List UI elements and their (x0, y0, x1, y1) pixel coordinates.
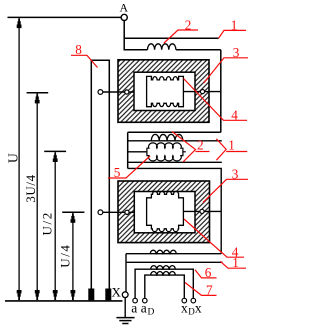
node A terminal circle (121, 14, 127, 20)
terminal circle T2 left outer (98, 210, 103, 215)
arrow down 3U/4 (35, 290, 40, 293)
terminal circle xD (182, 298, 187, 303)
wire top horizontal to A (8, 16, 122, 18)
inductor L2 top coil lead right (176, 49, 221, 51)
ground symbol (116, 318, 134, 324)
svg-text:1: 1 (231, 18, 238, 33)
inductor rowC coil bumps (151, 266, 176, 270)
thick bar shunt leg 1 (88, 289, 94, 301)
leader 3 upper (204, 58, 248, 83)
transformer core T2 window (134, 192, 195, 233)
wire row1 with coil (128, 140, 222, 142)
svg-text:2: 2 (185, 18, 192, 33)
red annotations (71, 30, 248, 295)
svg-text:7: 7 (206, 283, 213, 298)
transformer core T2 outer (118, 181, 210, 243)
transformer core T1 outer (118, 60, 209, 123)
thick bar shunt leg 2 (105, 289, 111, 301)
svg-text:a: a (131, 301, 137, 316)
wire rowC outer U (135, 269, 193, 298)
winding W5 fat coil body (147, 143, 186, 161)
inductor rowD coil bumps (151, 272, 176, 276)
arrow down U/2 (53, 290, 58, 293)
dimension arrows (17, 19, 76, 300)
wire left lower vertical to X (125, 254, 127, 292)
svg-text:8: 8 (75, 42, 82, 57)
svg-text:6: 6 (205, 265, 212, 280)
arrow up 3U/4 (36, 94, 38, 96)
terminal circle X (122, 292, 128, 298)
wire ladder left vertical (127, 132, 129, 168)
wire T1 left tap (103, 91, 134, 93)
terminal circle T2 left core (125, 210, 129, 214)
inductor L2 top coil bumps (148, 44, 176, 50)
wire rowA under T2 (126, 253, 221, 255)
arrow up U/2 (54, 153, 56, 155)
terminal circle x (191, 298, 196, 303)
terminal circle a (133, 298, 138, 303)
wire shunt loop top (91, 60, 109, 299)
svg-text:5: 5 (114, 165, 121, 180)
winding W5 right stub (183, 151, 186, 153)
arrow up U (18, 19, 20, 21)
wire T2 left tap (103, 211, 134, 213)
leader 6 (195, 270, 217, 278)
svg-text:1: 1 (232, 255, 239, 270)
leader 1 top (219, 30, 246, 38)
svg-text:U: U (6, 153, 21, 163)
dimension line U (18, 17, 20, 300)
leader 4 lower (184, 219, 244, 257)
wire fat coil lead left (128, 151, 147, 153)
svg-text:2: 2 (197, 138, 204, 153)
arrow up U/4 (72, 214, 74, 216)
leader 2 top (164, 30, 198, 43)
svg-text:3: 3 (232, 167, 239, 182)
svg-text:3: 3 (233, 45, 240, 60)
wire row3 (128, 161, 222, 163)
dimension line 3U/4 (27, 93, 49, 300)
wire row4 to right vertical (128, 168, 222, 253)
leader 8 (71, 55, 98, 67)
wire A vertical drop (123, 21, 125, 50)
wire rowD inner U (145, 275, 185, 298)
svg-text:x: x (195, 301, 202, 316)
transformer core T1 window (134, 72, 195, 110)
leader 1 middle chevron (216, 139, 226, 160)
leader 2 middle chevron (172, 132, 196, 163)
arrow down U (17, 290, 22, 293)
svg-text:U/2: U/2 (39, 211, 54, 235)
dimension line U/4 (62, 212, 84, 300)
wire T1 right tap (184, 91, 221, 93)
terminal circle aD (143, 298, 148, 303)
terminal circle T2 right core (200, 209, 204, 213)
inductor L2 top coil lead left (124, 49, 148, 51)
svg-text:U/4: U/4 (58, 243, 73, 267)
svg-text:1: 1 (228, 138, 235, 153)
winding W2 frame in T2 (147, 191, 184, 231)
terminal circle T1 right core (200, 90, 204, 94)
dimension line U/2 (44, 151, 66, 300)
terminal circle T1 left outer (98, 90, 103, 95)
wire right vertical upper (220, 50, 222, 133)
svg-text:A: A (120, 0, 129, 14)
leader 1 lower (220, 261, 246, 268)
wire 1 top branch (124, 37, 219, 39)
leader 3 lower (203, 179, 248, 202)
leader 7 (185, 283, 217, 296)
inductor rowA coil bumps (150, 250, 176, 254)
svg-text:X: X (112, 285, 122, 300)
wire T2 right tap (184, 210, 222, 212)
svg-text:3U/4: 3U/4 (23, 174, 38, 202)
svg-text:x: x (181, 301, 188, 316)
winding W1 frame in T1 (147, 76, 184, 106)
terminal circle T1 left core (125, 90, 129, 94)
svg-text:4: 4 (231, 108, 238, 123)
leader 5 (108, 156, 150, 178)
red label texts (75, 18, 240, 298)
leader 4 upper (184, 79, 248, 121)
wire rowB (126, 261, 223, 263)
svg-text:a: a (141, 301, 147, 316)
wire ground lead (124, 298, 126, 318)
inductor row1 coil bumps (151, 134, 183, 140)
bus bottom line (5, 300, 122, 302)
wire a horizontal under upper core (128, 131, 221, 133)
arrow down U/4 (71, 290, 76, 293)
svg-text:D: D (148, 307, 155, 317)
